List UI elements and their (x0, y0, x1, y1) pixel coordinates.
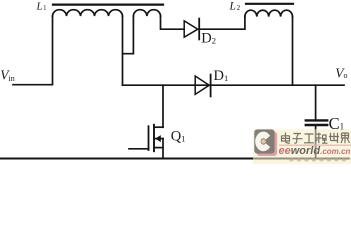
watermark logo shadow (257, 132, 277, 156)
inductor L2 core bar (246, 3, 293, 5)
inductor L1 winding section 2 (2 turns) (133, 10, 160, 16)
watermark logo C mark (255, 132, 270, 152)
inductor L2 winding (4 turns) (245, 10, 293, 16)
transistor Q1 source lead down to bottom rail (162, 139, 164, 159)
transistor Q1 drain stub (154, 126, 163, 128)
diode D1 cathode bar (210, 75, 212, 97)
transistor Q1 body arrow stub (154, 138, 163, 140)
capacitor C1 top lead (315, 85, 317, 119)
capacitor C1 bottom lead (315, 126, 317, 158)
bottom rail seen through watermark (253, 158, 350, 160)
wire L1 section-2 start to tap junction (123, 16, 134, 54)
transistor Q1 gate bar (148, 126, 150, 150)
wire Q1 drain to output rail (162, 85, 164, 127)
capacitor C1 bottom plate (306, 124, 327, 126)
watermark underline (279, 144, 351, 146)
transistor Q1 channel bar (153, 125, 155, 151)
wire D2 cathode to L2 left terminal (199, 17, 245, 30)
inductor L1 winding section 1 (5 turns) (53, 10, 123, 16)
wire bottom return rail (1, 158, 350, 160)
watermark background panel (253, 129, 351, 164)
wire output rail from tap junction through D1 to Vo (123, 84, 345, 86)
transistor Q1 source stub (154, 147, 163, 149)
watermark chinese title glyphs (282, 133, 350, 144)
wire L2 right terminal down to output rail (292, 17, 294, 86)
watermark logo center dot (261, 139, 265, 143)
transistor Q1 body arrow head (155, 135, 161, 142)
inductor L1 core bar (53, 3, 163, 5)
wire L1 right terminal to D2 anode (161, 16, 185, 29)
watermark slogan tiny glyph row (290, 158, 346, 162)
capacitor C1 top plate (306, 119, 327, 121)
transistor Q1 gate lead (129, 148, 149, 150)
diode D1 triangle (195, 76, 209, 94)
svg-text:eeworld.com.cn: eeworld.com.cn (279, 145, 351, 157)
diode D2 cathode bar (198, 19, 200, 40)
diode D2 triangle (184, 21, 198, 37)
capacitor C1 lead seen through watermark (315, 129, 317, 158)
wire Vin input to L1 left terminal (13, 16, 53, 85)
watermark logo square (254, 129, 274, 153)
wire L1 tap down to D1 anode rail (122, 16, 124, 85)
